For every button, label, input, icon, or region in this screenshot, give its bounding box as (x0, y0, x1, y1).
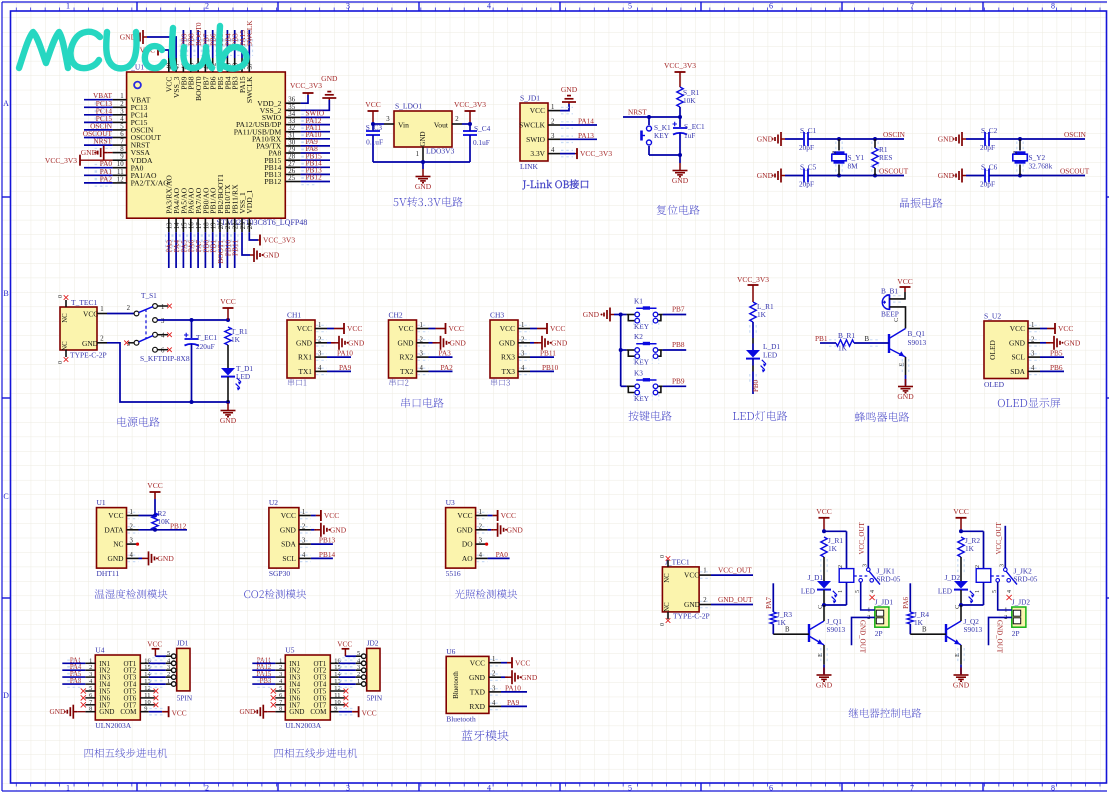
svg-text:LDO3V3: LDO3V3 (426, 147, 455, 156)
wire K3 to net PB9 (663, 377, 687, 387)
mcu pin 13 wire net PA3 (165, 218, 174, 268)
mcu pin 39 wire net PB3 (231, 30, 240, 72)
key K3 KEY (621, 368, 663, 403)
power flag VCC at U3 (476, 510, 516, 521)
svg-text:10K: 10K (683, 96, 696, 105)
LED T_D1 (221, 364, 253, 391)
title stepper motor (85, 748, 168, 758)
wire J_JD1 pin2 net GND_OUT (852, 617, 875, 653)
label CH1 subtitle (288, 379, 306, 386)
capacitor S_EC1 1uF (673, 117, 706, 155)
svg-text:0: 0 (660, 555, 666, 558)
no-connect relay NO contact (1007, 595, 1012, 600)
wire base resistor J_R4 (902, 583, 946, 634)
ground at U5 (239, 705, 285, 719)
svg-text:PA2: PA2 (441, 363, 454, 372)
LED J_D1 (801, 573, 838, 604)
svg-text:Vout: Vout (434, 121, 449, 130)
mcu bottom pin numbers (167, 222, 255, 229)
svg-text:NRST: NRST (628, 108, 647, 117)
power flag VCC_3V3 at VDDA (45, 155, 127, 166)
svg-text:PB14: PB14 (319, 550, 336, 559)
wire U3 pin4 net PA0 (476, 550, 510, 562)
svg-text:NC: NC (62, 313, 69, 323)
no-connect U1 pin3 (127, 543, 140, 546)
svg-text:S9013: S9013 (964, 625, 983, 634)
wire U5 IN4 net PB3 (252, 678, 285, 687)
module U6 Bluetooth body (446, 647, 496, 724)
svg-text:7: 7 (910, 784, 914, 793)
svg-text:2: 2 (100, 335, 104, 342)
svg-text:PB1: PB1 (815, 334, 828, 343)
power flag VCC_3V3 at JD1 pin4 (548, 148, 612, 159)
no-connect U4 IN5 (81, 688, 96, 693)
svg-text:VCC_3V3: VCC_3V3 (664, 61, 696, 70)
svg-text:VCC_3V3: VCC_3V3 (580, 149, 612, 158)
svg-text:COM: COM (310, 708, 327, 716)
svg-text:GND: GND (348, 338, 365, 347)
ground buzzer (897, 379, 914, 401)
svg-text:C: C (954, 605, 961, 609)
no-connect U4 IN6 (81, 695, 96, 700)
svg-text:Bluetooth: Bluetooth (446, 715, 476, 724)
svg-text:VCC: VCC (297, 324, 312, 333)
svg-text:PB8: PB8 (672, 340, 685, 349)
capacitor S_C6 20pF (966, 163, 998, 189)
module U3 body (446, 498, 483, 578)
wire U4 OT1 to JD1 pin4 (140, 660, 171, 666)
svg-text:RX1: RX1 (298, 353, 312, 362)
wire OLED pin4 net PB6 (1028, 363, 1064, 375)
svg-text:0.1uF: 0.1uF (366, 138, 383, 147)
svg-text:2: 2 (205, 784, 209, 793)
svg-text:C: C (817, 605, 824, 609)
svg-text:J_JD2: J_JD2 (1012, 598, 1031, 607)
svg-text:1K: 1K (757, 310, 767, 319)
mcu pin 14 wire net PA4 (172, 218, 181, 268)
svg-text:U4: U4 (95, 646, 104, 655)
svg-text:2: 2 (703, 597, 707, 604)
svg-text:CH3: CH3 (490, 311, 504, 320)
wire emitter to ground (954, 645, 964, 674)
svg-text:K1: K1 (634, 297, 643, 306)
mcu pin 17 wire net PA7 (194, 218, 203, 268)
mcu pin 41 wire net PB5 (216, 30, 225, 72)
svg-text:C: C (893, 318, 900, 322)
module U1 body (97, 498, 134, 578)
ground relay driver J_Q2 (953, 668, 970, 690)
power flag VCC at U4 COM (140, 706, 186, 717)
buzzer B_B1 BEEP (881, 287, 899, 319)
crystal S_Y2 32.768k (1013, 139, 1053, 176)
driver U5 ULN2003A body (279, 646, 341, 731)
svg-text:2: 2 (205, 2, 209, 11)
ground at S_C6 bottom (938, 169, 966, 183)
title J-Link OB (522, 179, 588, 189)
svg-text:1: 1 (838, 590, 844, 593)
svg-text:GND: GND (507, 525, 524, 534)
wire TEC1 GND down and bottom rail (97, 335, 230, 404)
label CH2 subtitle (389, 379, 408, 386)
connector CH1 body (287, 311, 322, 379)
no-connect U5 OT5 (330, 689, 348, 694)
svg-text:SCL: SCL (282, 554, 296, 563)
power flag VCC at OLED (1028, 323, 1073, 334)
svg-text:VCC_3V3: VCC_3V3 (454, 100, 486, 109)
svg-text:S_C4: S_C4 (474, 124, 491, 133)
svg-text:3: 3 (346, 784, 350, 793)
svg-text:5516: 5516 (446, 569, 461, 578)
resistor B_R1 1K (836, 331, 855, 353)
svg-text:PA10: PA10 (505, 683, 521, 692)
svg-text:JD1: JD1 (177, 639, 189, 648)
ground at S_C5 bottom (757, 169, 785, 183)
mcu pin 20 wire net BOOT1 (216, 218, 225, 268)
svg-text:5: 5 (628, 2, 632, 11)
LED J_D2 (938, 573, 975, 604)
svg-text:GND: GND (296, 338, 313, 347)
svg-text:OLED: OLED (988, 339, 997, 359)
svg-text:GND: GND (499, 338, 516, 347)
svg-text:S_C1: S_C1 (800, 126, 817, 135)
svg-text:2: 2 (838, 565, 844, 568)
wire net PB1 to base resistor (815, 334, 836, 346)
svg-text:GND: GND (551, 338, 568, 347)
svg-text:VCC_3V3: VCC_3V3 (290, 81, 322, 90)
svg-text:S_LDO1: S_LDO1 (395, 102, 422, 111)
mcu pin 38 wire net PA15 (238, 30, 247, 72)
power flag VCC at pin48 (140, 45, 169, 73)
svg-text:RXD: RXD (469, 702, 485, 711)
power flag VCC at CH3 (518, 323, 565, 334)
svg-text:PA5: PA5 (70, 671, 82, 678)
svg-text:6: 6 (769, 784, 773, 793)
svg-text:NC: NC (62, 341, 69, 351)
svg-text:GND: GND (757, 135, 774, 144)
svg-text:VCC: VCC (398, 324, 413, 333)
wire NRST node (623, 107, 682, 125)
wire VCC_OUT to relay common (858, 521, 868, 567)
svg-text:20: 20 (218, 222, 225, 229)
wire U5 OT3 to JD2 pin2 (330, 674, 361, 680)
svg-text:LINK: LINK (520, 162, 538, 171)
title crystal circuit (900, 198, 943, 208)
ground at U6 (489, 670, 538, 684)
svg-text:VCC: VCC (550, 324, 565, 333)
no-connect U4 IN7 (81, 702, 96, 707)
svg-text:S_C3: S_C3 (366, 123, 383, 132)
svg-text:0.1uF: 0.1uF (473, 138, 490, 147)
mcu pin 16 wire net PA6 (187, 218, 196, 268)
power flag VCC_3V3 at pin36 (285, 81, 322, 103)
svg-text:20pF: 20pF (980, 143, 995, 152)
wire base net B (854, 336, 889, 346)
svg-text:S9013: S9013 (908, 338, 927, 347)
svg-text:GND: GND (938, 135, 955, 144)
svg-text:U6: U6 (446, 647, 455, 656)
no-connect switch pin6 (157, 347, 171, 352)
svg-text:VCC: VCC (530, 106, 545, 115)
svg-text:PA2: PA2 (100, 174, 113, 183)
svg-text:TYPE-C-2P: TYPE-C-2P (673, 611, 710, 620)
svg-text:GND: GND (239, 707, 255, 716)
connector CH2 body (389, 311, 424, 379)
svg-text:VCC: VCC (470, 658, 485, 667)
wire JD1 pin2 net PA14 (548, 117, 597, 129)
no-connect bottom TEC1 (64, 357, 69, 362)
svg-text:Vin: Vin (398, 121, 409, 130)
wire VCC node to coil branch (959, 529, 984, 533)
resistor T_R1 1K (225, 327, 248, 345)
title relay control circuit (849, 708, 922, 718)
wire U4 IN2 net PA4 (62, 664, 95, 673)
svg-text:16: 16 (189, 222, 196, 229)
wire resistor to LED (958, 557, 964, 581)
no-connect bottom J_TEC1 (666, 618, 671, 623)
power flag VCC_3V3 reset (664, 61, 696, 87)
svg-text:4: 4 (487, 2, 491, 11)
mcu pin 32 wire net PA11 (285, 123, 330, 135)
svg-text:PA7: PA7 (765, 597, 773, 609)
relay J_JK2 switch (991, 564, 1038, 593)
svg-text:COM: COM (120, 708, 137, 716)
svg-text:220uF: 220uF (196, 342, 215, 351)
svg-text:VCC_OUT: VCC_OUT (858, 521, 866, 554)
svg-text:GND: GND (1009, 338, 1026, 347)
svg-text:VCC: VCC (365, 100, 380, 109)
power flag VCC at CH2 (417, 323, 464, 334)
svg-text:LED: LED (763, 351, 777, 360)
svg-text:0: 0 (660, 623, 666, 626)
svg-text:S_KFTDIP-8X8: S_KFTDIP-8X8 (140, 354, 190, 363)
svg-text:4: 4 (487, 784, 491, 793)
mcu pin 4 wire net PC15 (84, 114, 127, 126)
svg-text:18: 18 (203, 222, 210, 229)
svg-text:8M: 8M (848, 162, 859, 171)
wire U5 OT4 to JD2 pin1 (330, 681, 361, 687)
transistor J_Q1 S9013 (809, 617, 846, 645)
svg-text:VCC: VCC (897, 277, 912, 286)
svg-text:15: 15 (181, 222, 188, 229)
svg-text:J_JD1: J_JD1 (875, 598, 894, 607)
wire relay NC contact to J_JD2 pin1 (998, 582, 1012, 610)
mcu pin 2 wire net PC13 (84, 99, 127, 111)
title 光照检测模块 (455, 589, 517, 599)
svg-text:PB11: PB11 (540, 349, 556, 358)
wire resistor to LED (750, 322, 756, 350)
ground at U3 (476, 523, 524, 537)
svg-text:GND_OUT: GND_OUT (718, 595, 753, 604)
svg-text:T_TEC1: T_TEC1 (71, 298, 97, 307)
power flag VCC buzzer (897, 277, 912, 292)
title LED circuit (733, 411, 787, 421)
svg-text:GND: GND (938, 171, 955, 180)
ground at JD1 pin1 (561, 85, 578, 104)
key K1 KEY (621, 297, 663, 332)
ground relay driver J_Q1 (816, 668, 833, 690)
svg-text:5: 5 (628, 784, 632, 793)
ground at LDO (415, 162, 432, 191)
svg-text:VCC: VCC (500, 324, 515, 333)
svg-text:GND: GND (521, 673, 538, 682)
no-connect U3 pin3 (476, 543, 489, 546)
mcu pin 26 wire net PB13 (285, 166, 330, 178)
svg-text:CH2: CH2 (389, 311, 403, 320)
svg-text:GND: GND (289, 708, 304, 716)
wire OSCOUT S_Y1 (808, 167, 909, 178)
svg-text:VCC: VCC (457, 511, 472, 520)
label S_KFTDIP-8X8 (140, 354, 190, 363)
voltage regulator S_LDO1 body (394, 102, 455, 156)
svg-text:K3: K3 (634, 368, 643, 377)
svg-text:SDA: SDA (1010, 367, 1025, 376)
mcu pin 22 wire net PB11 (231, 218, 240, 268)
svg-text:NC: NC (113, 540, 123, 549)
svg-text:PA8: PA8 (70, 678, 82, 685)
ruler numbers top (66, 2, 1055, 11)
power flag VCC at U6 (489, 657, 531, 668)
svg-text:S_JD1: S_JD1 (520, 94, 540, 103)
title 温湿度检测模块 (95, 589, 168, 599)
wire U6 pin3 net PA10 (489, 683, 527, 695)
svg-text:24: 24 (247, 222, 254, 229)
svg-text:4: 4 (870, 590, 876, 593)
wire CH1 pin3 net PA10 (315, 349, 353, 361)
svg-text:PA10: PA10 (337, 349, 353, 358)
svg-text:VCC: VCC (172, 709, 187, 718)
no-connect U4 OT5 (140, 689, 158, 694)
transistor B_Q1 S9013 (889, 329, 927, 358)
svg-text:GND_OUT: GND_OUT (859, 620, 867, 654)
connector CH3 body (490, 311, 525, 379)
svg-text:BEEP: BEEP (881, 310, 899, 319)
svg-text:GND: GND (469, 673, 486, 682)
MCUclub logo (19, 26, 247, 69)
wire U5 OT1 to JD2 pin4 (330, 660, 361, 666)
svg-text:GND: GND (397, 338, 414, 347)
svg-text:VDD_1: VDD_1 (245, 189, 254, 213)
svg-text:GND_OUT: GND_OUT (996, 620, 1004, 654)
svg-text:U5: U5 (285, 646, 294, 655)
mcu bottom pin names inside body (165, 174, 255, 214)
mcu pin 18 wire net PB0 (201, 218, 210, 268)
mcu pin 25 wire net PB12 (285, 173, 330, 185)
svg-text:VCC: VCC (449, 324, 464, 333)
svg-text:SDA: SDA (281, 540, 296, 549)
mcu pin 44 wire net BOOT0 (194, 22, 203, 72)
svg-text:OSCOUT: OSCOUT (1060, 167, 1090, 176)
svg-text:GND: GND (158, 554, 175, 563)
ground at S_C1 top (757, 132, 785, 146)
svg-text:4: 4 (161, 333, 165, 340)
svg-text:1: 1 (100, 306, 103, 313)
mcu pin 6 wire net OSCOUT (83, 129, 127, 141)
title buzzer circuit (855, 412, 909, 422)
svg-text:1: 1 (703, 568, 706, 575)
svg-text:GND: GND (897, 392, 914, 401)
svg-text:VCC_3V3: VCC_3V3 (45, 156, 77, 165)
wire Vout to VCC_3V3 (452, 116, 472, 126)
svg-text:B_Q1: B_Q1 (908, 329, 926, 338)
svg-text:1K: 1K (828, 544, 838, 553)
svg-text:PB7: PB7 (672, 305, 685, 314)
no-connect U5 IN7 (271, 702, 286, 707)
title reset circuit (657, 205, 700, 215)
svg-text:GND: GND (953, 681, 970, 690)
ground at CH2 (417, 336, 467, 350)
no-connect top TEC1 (64, 295, 69, 300)
module U2 body (269, 498, 306, 578)
power flag VCC at CH1 (315, 323, 362, 334)
svg-text:2P: 2P (1012, 629, 1020, 638)
svg-text:RX3: RX3 (501, 353, 515, 362)
wire U5 IN3 net PA15 (252, 671, 285, 680)
svg-text:VCC: VCC (147, 640, 162, 649)
svg-text:GND: GND (81, 148, 98, 157)
svg-text:20pF: 20pF (980, 180, 995, 189)
mcu pin 33 wire net PA12 (285, 116, 330, 128)
no-connect top J_TEC1 (666, 556, 671, 561)
svg-text:8: 8 (1051, 784, 1055, 793)
mcu pin 46 wire net PB9 (179, 30, 188, 72)
svg-text:ULN2003A: ULN2003A (95, 721, 131, 730)
wire U4 IN1 net PA1 (62, 657, 95, 666)
mcu pin 40 wire net PB4 (223, 30, 232, 72)
svg-text:LED: LED (801, 587, 815, 596)
svg-text:3: 3 (161, 318, 165, 325)
svg-text:OLED: OLED (984, 380, 1005, 389)
wire LED to collector node (954, 590, 984, 619)
svg-text:VCC: VCC (281, 511, 296, 520)
svg-text:KEY: KEY (634, 358, 650, 367)
resistor R1 RES (872, 139, 893, 176)
svg-text:B: B (785, 627, 790, 634)
wire U4 OT4 to JD1 pin1 (140, 681, 171, 687)
svg-text:4: 4 (1007, 590, 1013, 593)
wire LED to collector node (817, 590, 847, 619)
svg-text:DATA: DATA (104, 525, 124, 534)
wire buzzer to collector (890, 307, 906, 329)
svg-text:23: 23 (240, 222, 247, 229)
title bluetooth module (462, 730, 509, 741)
svg-text:CH1: CH1 (287, 311, 301, 320)
wire OSCOUT S_Y2 (989, 167, 1090, 178)
svg-text:PB9: PB9 (672, 377, 685, 386)
mcu pin 29 wire net PA8 (285, 144, 330, 156)
svg-text:OSCOUT: OSCOUT (879, 167, 909, 176)
wire OLED pin3 net PB5 (1028, 349, 1064, 361)
svg-text:GND: GND (757, 171, 774, 180)
mcu pin 42 wire net PB6 (209, 30, 218, 72)
capacitor S_C3 0.1uF (366, 123, 383, 162)
wire to reset ground (679, 155, 681, 163)
capacitor S_C4 0.1uF (463, 124, 491, 162)
ground at S_C2 top (938, 132, 966, 146)
mcu pin 45 wire net PB8 (187, 30, 196, 72)
capacitor S_C5 20pF (785, 163, 817, 189)
capacitor T_EC1 220uF (184, 320, 217, 402)
svg-text:S_EC1: S_EC1 (684, 122, 705, 131)
svg-text:3.3V: 3.3V (530, 149, 545, 158)
ruler numbers bottom (66, 784, 1055, 793)
mcu pin 3 wire net PC14 (84, 106, 127, 118)
svg-text:PA13: PA13 (578, 131, 594, 140)
svg-text:K2: K2 (634, 332, 643, 341)
svg-text:VCC: VCC (684, 571, 699, 580)
wire TEC1 VCC to switch (97, 306, 134, 314)
LED L_D1 (746, 342, 780, 373)
label CH3 subtitle (491, 379, 510, 386)
